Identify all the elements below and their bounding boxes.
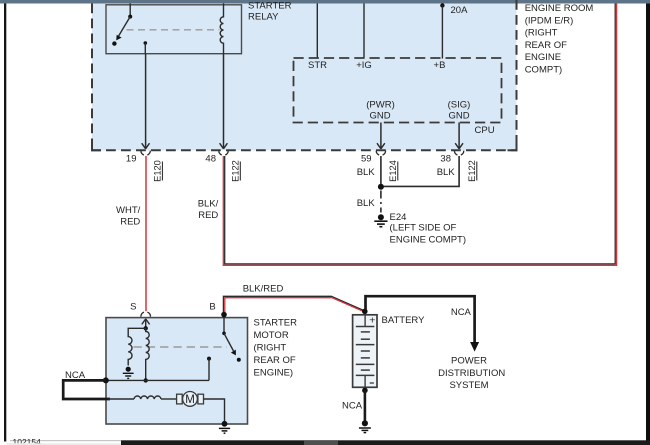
svg-text:SYSTEM: SYSTEM [449, 380, 488, 391]
svg-text:BATTERY: BATTERY [382, 315, 426, 326]
power distribution arrow [470, 342, 479, 352]
connector E122 cup (pin48) [219, 151, 228, 155]
connector label E122 [230, 160, 240, 182]
IPDM E/R dashed box border [91, 0, 518, 150]
battery BAT1 box [353, 315, 377, 388]
svg-text:CPU: CPU [475, 125, 495, 136]
svg-text:B: B [209, 302, 215, 313]
internal ground symbol [123, 373, 134, 378]
svg-text:38: 38 [440, 154, 451, 165]
starter motor box [106, 318, 248, 424]
main switch pivot dot [222, 332, 226, 336]
field coil [134, 396, 161, 399]
svg-text:+B: +B [434, 60, 446, 71]
ground junction node [378, 184, 384, 190]
svg-text:POWER: POWER [451, 355, 487, 366]
battery negative post dot [362, 388, 368, 394]
svg-text:E122: E122 [467, 160, 477, 182]
svg-text:+IG: +IG [356, 60, 372, 71]
IPDM E/R box fill [92, 0, 517, 150]
wire battery to power distribution (thick) [366, 296, 475, 342]
bottom scrollbar band [121, 440, 650, 445]
svg-text:STARTER: STARTER [254, 318, 298, 329]
NCA entry node dot [103, 377, 109, 383]
svg-text:E122: E122 [230, 160, 240, 182]
terminal B node dot [221, 312, 227, 318]
wire to field coil [108, 398, 134, 400]
wire to hold-in coil [128, 328, 146, 331]
wire BLK/RED pin48 to off-page (black+red pair) [225, 4, 616, 264]
svg-text:GND: GND [448, 111, 469, 122]
hold-in coil ground dot [126, 367, 131, 372]
wire field coil to motor [161, 398, 177, 400]
svg-text:(SIG): (SIG) [448, 99, 471, 110]
wire WHT/RED pin19 to S [145, 156, 147, 311]
motor ground symbol [219, 428, 230, 433]
svg-text:MOTOR: MOTOR [254, 330, 289, 341]
wire STR input [316, 4, 318, 59]
svg-text:STR: STR [308, 60, 327, 71]
svg-text:ENGINE ROOM: ENGINE ROOM [525, 3, 594, 14]
svg-text:(LEFT SIDE OF: (LEFT SIDE OF [390, 223, 457, 234]
CPU dashed box [294, 58, 502, 123]
window top bar [0, 0, 650, 4]
svg-text:RED: RED [198, 210, 218, 221]
svg-text:59: 59 [361, 154, 372, 165]
svg-text:REAR OF: REAR OF [254, 355, 296, 366]
svg-text:GND: GND [369, 111, 390, 122]
ground E24 [378, 214, 384, 220]
wire contact to bus [208, 359, 210, 381]
wire motor to case ground [204, 399, 225, 423]
svg-text:WHT/: WHT/ [116, 205, 141, 216]
window right border [646, 4, 650, 445]
svg-text:ENGINE COMPT): ENGINE COMPT) [390, 234, 467, 245]
wire relay contact to pin 19 [144, 43, 146, 54]
connector E124 cup [376, 151, 385, 155]
pull-in coil [146, 328, 150, 380]
motor ground dot [222, 421, 228, 427]
connector E122 cup (pin38) [454, 151, 463, 155]
svg-text:(RIGHT: (RIGHT [254, 343, 287, 354]
internal bus wire [106, 379, 209, 381]
wire SIG GND drop [458, 123, 460, 149]
relay switch pivot dot [128, 15, 132, 19]
solenoid mechanical link (dashed) [134, 346, 228, 348]
svg-text:BLK: BLK [357, 198, 376, 209]
wire +B from fuse [441, 6, 443, 59]
battery ground symbol [359, 428, 371, 433]
connector label E124 [388, 160, 398, 182]
svg-text:REAR OF: REAR OF [525, 40, 567, 51]
connector label E122 (38) [467, 160, 477, 182]
wire BLK dashed to E24 [380, 191, 382, 213]
connector label E120 [153, 160, 163, 182]
connector cap at S [141, 312, 151, 317]
svg-text:RELAY: RELAY [248, 11, 279, 22]
svg-text:BLK: BLK [437, 167, 456, 178]
battery ground dot [362, 420, 368, 426]
relay coil [220, 4, 223, 54]
motor M1 [183, 392, 198, 407]
svg-text:BLK/RED: BLK/RED [243, 283, 284, 294]
svg-text:S: S [130, 302, 136, 313]
main contact feed from B [223, 315, 225, 334]
wire BLK/RED B to battery (pair) [223, 296, 364, 314]
solenoid junction dot [144, 326, 148, 330]
IPDM E/R location label [525, 3, 594, 76]
battery positive post dot [362, 309, 368, 315]
NCA loop wire (thick) [63, 380, 110, 399]
svg-text:+: + [369, 315, 375, 327]
svg-text:(RIGHT: (RIGHT [525, 28, 558, 39]
hold-in coil [128, 332, 132, 366]
svg-text:E120: E120 [153, 160, 163, 182]
svg-text:M: M [185, 394, 195, 406]
wire pin19 drop inside IPDM [145, 54, 147, 148]
svg-text:RED: RED [120, 217, 140, 228]
svg-text:NCA: NCA [451, 307, 472, 318]
motor M1 brushes [177, 394, 183, 404]
relay switch contact dot [112, 41, 116, 45]
main switch contact dot [237, 358, 241, 362]
svg-text:BLK/: BLK/ [198, 199, 219, 210]
svg-text:(PWR): (PWR) [366, 99, 395, 110]
battery internals [364, 315, 366, 327]
svg-text:ENGINE: ENGINE [525, 52, 561, 63]
starter relay R1 box [106, 5, 242, 54]
svg-text:DISTRIBUTION: DISTRIBUTION [438, 368, 505, 379]
starter motor label [254, 318, 298, 379]
relay switch arm [119, 17, 131, 36]
svg-text:BLK: BLK [357, 167, 376, 178]
svg-text:48: 48 [205, 154, 216, 165]
svg-text:STARTER: STARTER [248, 1, 292, 12]
svg-text:ENGINE): ENGINE) [254, 368, 294, 379]
wire PWR GND drop [380, 123, 382, 149]
relay output node dot [144, 41, 148, 45]
pull-in coil bottom junction dot [144, 378, 148, 382]
connector E120 cup [141, 151, 150, 155]
svg-text:NCA: NCA [65, 370, 86, 381]
wire BLK 38 to ground node [383, 156, 459, 186]
svg-text:20A: 20A [451, 5, 469, 16]
svg-text:E24: E24 [390, 212, 407, 223]
svg-text:E124: E124 [388, 160, 398, 182]
svg-text:COMPT): COMPT) [525, 65, 562, 76]
svg-text:(IPDM E/R): (IPDM E/R) [525, 15, 574, 26]
wire +IG input [363, 4, 365, 59]
fuse 20A (bottom end, cut at top) [440, 3, 444, 7]
wire relay switch feed stub [129, 4, 131, 17]
main switch arm [224, 333, 234, 351]
motor-side contact dot [207, 357, 211, 361]
wire pin48 drop inside IPDM [223, 54, 225, 148]
relay mechanical link (dashed) [127, 29, 220, 31]
svg-text:NCA: NCA [342, 401, 363, 412]
arrow into S terminal [142, 319, 150, 325]
window left border [4, 4, 6, 442]
svg-text:19: 19 [126, 154, 137, 165]
wire battery to ground (thick) [364, 390, 367, 420]
wire BLK 59 to ground node [380, 156, 382, 187]
